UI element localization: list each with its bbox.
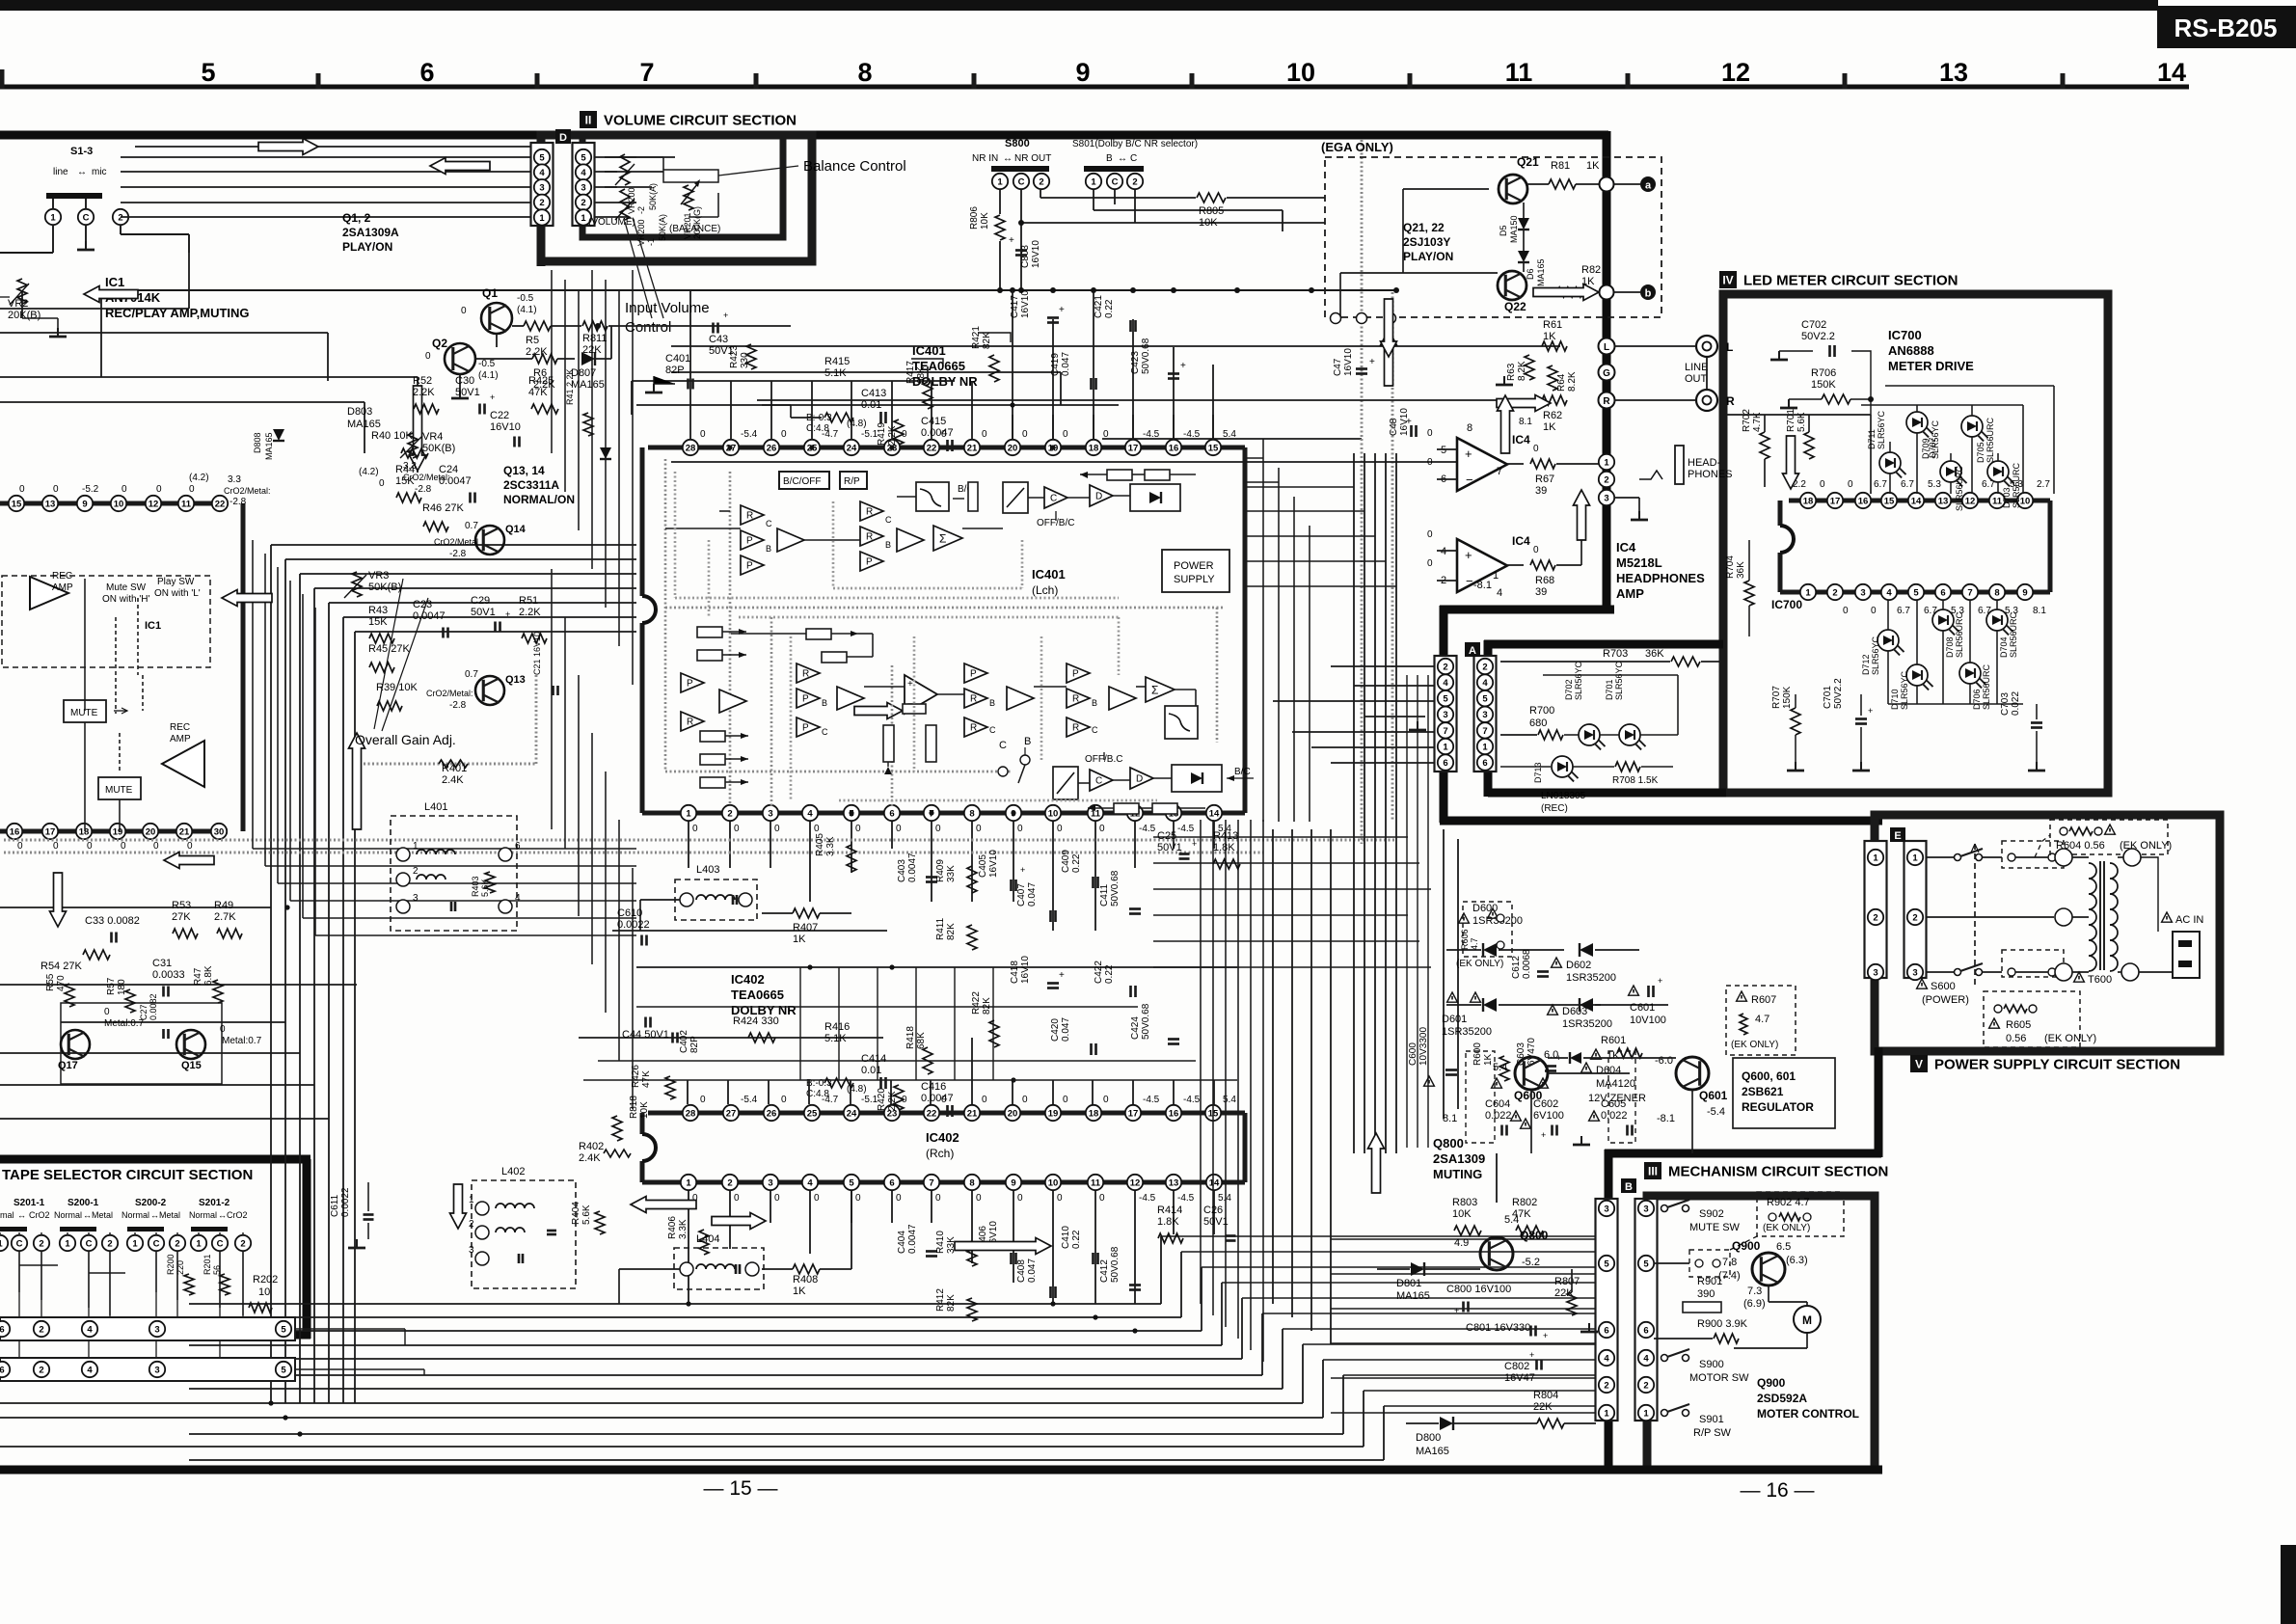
- svg-text:+: +: [1541, 1130, 1546, 1140]
- svg-text:1: 1: [413, 841, 419, 852]
- svg-text:0: 0: [976, 824, 982, 834]
- svg-text:Metal: Metal: [159, 1210, 180, 1220]
- svg-text:28: 28: [686, 1108, 696, 1119]
- svg-text:C800 16V100: C800 16V100: [1446, 1284, 1511, 1295]
- svg-text:4: 4: [1443, 678, 1448, 689]
- svg-text:MUTING: MUTING: [1433, 1167, 1482, 1181]
- svg-text:D705: D705: [1976, 442, 1985, 463]
- svg-text:C801 16V330: C801 16V330: [1466, 1322, 1530, 1334]
- svg-text:C24: C24: [439, 464, 458, 475]
- svg-text:30: 30: [214, 826, 225, 837]
- svg-text:RS-B205: RS-B205: [2174, 14, 2278, 42]
- svg-text:R607: R607: [1751, 994, 1776, 1006]
- svg-text:390: 390: [1697, 1288, 1715, 1300]
- svg-text:10: 10: [2020, 496, 2031, 506]
- svg-text:R53: R53: [172, 900, 191, 911]
- svg-text:D800: D800: [1416, 1432, 1441, 1444]
- svg-text:C44 50V1: C44 50V1: [622, 1029, 669, 1041]
- svg-text:Input Volume: Input Volume: [625, 300, 710, 316]
- svg-text:3.3K: 3.3K: [678, 1219, 689, 1239]
- svg-text:11: 11: [1091, 808, 1101, 819]
- svg-text:PHONES: PHONES: [1688, 469, 1732, 480]
- svg-text:3: 3: [154, 1365, 159, 1375]
- svg-text:mic: mic: [92, 167, 107, 177]
- svg-text:D603: D603: [1562, 1006, 1587, 1017]
- svg-text:3.3: 3.3: [228, 474, 241, 485]
- svg-text:13: 13: [45, 499, 56, 509]
- svg-text:-8.1: -8.1: [1657, 1113, 1675, 1124]
- svg-text:2.2K: 2.2K: [413, 387, 435, 398]
- svg-text:C: C: [153, 1238, 160, 1249]
- svg-text:12V ZENER: 12V ZENER: [1588, 1093, 1646, 1104]
- svg-text:2: 2: [1873, 912, 1877, 923]
- svg-text:16V10: 16V10: [1020, 290, 1031, 318]
- svg-text:MA4120: MA4120: [1596, 1078, 1635, 1090]
- svg-text:R422: R422: [971, 991, 982, 1015]
- svg-text:C420: C420: [1050, 1018, 1061, 1042]
- svg-text:6V470: 6V470: [1526, 1038, 1537, 1066]
- svg-text:6.7: 6.7: [1874, 479, 1887, 490]
- svg-text:16: 16: [10, 826, 20, 837]
- svg-text:MECHANISM CIRCUIT SECTION: MECHANISM CIRCUIT SECTION: [1668, 1164, 1888, 1180]
- svg-text:C: C: [822, 727, 828, 737]
- svg-text:16: 16: [1169, 1108, 1179, 1119]
- svg-text:C47: C47: [1333, 358, 1343, 376]
- svg-text:+: +: [1192, 839, 1197, 849]
- svg-text:V: V: [1915, 1058, 1923, 1071]
- svg-text:R902 4.7: R902 4.7: [1767, 1197, 1810, 1208]
- svg-text:-4.5: -4.5: [1177, 824, 1195, 834]
- svg-text:(Lch): (Lch): [1032, 583, 1058, 597]
- svg-text:24: 24: [847, 443, 857, 453]
- svg-text:0: 0: [774, 824, 780, 834]
- svg-text:S201-1: S201-1: [14, 1198, 45, 1208]
- svg-text:↔: ↔: [150, 1210, 159, 1220]
- svg-text:6: 6: [1482, 758, 1487, 769]
- svg-text:R62: R62: [1543, 410, 1562, 421]
- svg-text:16V10: 16V10: [1343, 348, 1354, 376]
- svg-text:AC IN: AC IN: [2175, 914, 2203, 926]
- svg-text:L401: L401: [424, 801, 447, 813]
- svg-text:0: 0: [700, 1095, 706, 1105]
- svg-text:8: 8: [969, 808, 974, 819]
- svg-text:SLR56URC: SLR56URC: [2012, 462, 2021, 508]
- svg-text:9: 9: [2022, 587, 2027, 598]
- svg-text:C: C: [1130, 153, 1137, 164]
- svg-text:E: E: [1894, 830, 1901, 842]
- svg-text:3: 3: [1873, 967, 1877, 978]
- svg-text:7: 7: [1482, 726, 1487, 737]
- svg-text:C412: C412: [1099, 1259, 1110, 1283]
- svg-text:B: B: [1106, 153, 1113, 164]
- svg-text:+: +: [1009, 235, 1014, 246]
- svg-text:68K: 68K: [916, 1032, 927, 1049]
- svg-text:R807: R807: [1554, 1276, 1580, 1287]
- svg-text:10K: 10K: [1452, 1208, 1472, 1220]
- svg-text:16V10: 16V10: [490, 421, 521, 433]
- svg-text:B: B: [766, 544, 771, 554]
- svg-text:3: 3: [154, 1324, 159, 1335]
- svg-text:R423: R423: [729, 345, 740, 368]
- svg-text:C610: C610: [617, 907, 642, 919]
- svg-text:16V10: 16V10: [988, 850, 999, 878]
- svg-text:R55: R55: [45, 973, 56, 991]
- svg-text:R82: R82: [1581, 264, 1601, 276]
- svg-text:3: 3: [768, 808, 772, 819]
- svg-text:24: 24: [847, 1108, 857, 1119]
- svg-text:TAPE SELECTOR CIRCUIT SECTION: TAPE SELECTOR CIRCUIT SECTION: [2, 1167, 253, 1183]
- svg-text:L: L: [1604, 342, 1609, 353]
- svg-text:5: 5: [539, 152, 545, 163]
- svg-text:2: 2: [413, 866, 419, 877]
- svg-text:R: R: [687, 717, 693, 728]
- svg-text:15K: 15K: [368, 616, 388, 628]
- svg-text:180: 180: [117, 979, 127, 995]
- svg-text:D707: D707: [1928, 437, 1937, 458]
- svg-text:NORMAL/ON: NORMAL/ON: [503, 493, 575, 506]
- svg-text:T600: T600: [2088, 974, 2112, 986]
- svg-text:C421: C421: [1094, 295, 1104, 318]
- svg-text:2: 2: [727, 808, 732, 819]
- svg-text:Q601: Q601: [1699, 1089, 1728, 1102]
- svg-text:R606: R606: [1460, 929, 1470, 950]
- svg-text:15K: 15K: [395, 475, 415, 487]
- svg-text:(EK ONLY): (EK ONLY): [1763, 1223, 1810, 1233]
- svg-text:IC402: IC402: [926, 1130, 959, 1145]
- svg-text:II: II: [585, 114, 592, 127]
- svg-text:0: 0: [935, 824, 941, 834]
- svg-text:15: 15: [1208, 443, 1219, 453]
- svg-text:Mute SW: Mute SW: [106, 582, 147, 593]
- svg-text:C: C: [885, 515, 892, 525]
- svg-text:D801: D801: [1396, 1278, 1421, 1289]
- svg-text:R46 27K: R46 27K: [422, 502, 464, 514]
- svg-text:1: 1: [1091, 176, 1096, 187]
- svg-text:R600: R600: [1472, 1042, 1483, 1066]
- svg-text:C416: C416: [921, 1081, 946, 1093]
- svg-text:15: 15: [1884, 496, 1895, 506]
- svg-text:0: 0: [1533, 444, 1539, 454]
- svg-text:MA165: MA165: [571, 379, 605, 391]
- svg-text:1.8K: 1.8K: [1157, 1216, 1179, 1228]
- svg-text:(4.2): (4.2): [189, 473, 209, 483]
- svg-text:+: +: [505, 609, 510, 619]
- svg-text:B: B: [989, 698, 995, 708]
- svg-text:OUT: OUT: [1685, 373, 1708, 385]
- svg-text:3: 3: [539, 183, 544, 194]
- svg-text:19: 19: [113, 826, 123, 837]
- svg-text:S800: S800: [1005, 138, 1030, 149]
- svg-text:R5: R5: [526, 335, 539, 346]
- svg-text:21: 21: [179, 826, 190, 837]
- svg-text:-0.5: -0.5: [517, 293, 534, 304]
- svg-text:D5: D5: [1499, 225, 1508, 236]
- svg-text:+: +: [723, 311, 728, 320]
- svg-text:1: 1: [581, 213, 586, 224]
- svg-text:0: 0: [1017, 824, 1023, 834]
- svg-text:C30: C30: [455, 375, 474, 387]
- svg-text:5.1K: 5.1K: [824, 367, 847, 379]
- svg-text:D712: D712: [1861, 654, 1871, 675]
- svg-text:2SA1309: 2SA1309: [1433, 1151, 1485, 1166]
- svg-text:4: 4: [87, 1324, 93, 1335]
- svg-text:R52: R52: [413, 375, 432, 387]
- svg-text:R/P: R/P: [844, 476, 860, 487]
- svg-text:8.1: 8.1: [1443, 1113, 1457, 1124]
- svg-text:0.0022: 0.0022: [617, 919, 650, 931]
- svg-text:50V1: 50V1: [1203, 1216, 1229, 1228]
- svg-text:C417: C417: [1010, 295, 1020, 318]
- svg-text:0.0047: 0.0047: [907, 1224, 918, 1254]
- svg-text:Σ: Σ: [1151, 683, 1158, 696]
- svg-text:470: 470: [56, 975, 67, 991]
- svg-text:0: 0: [1427, 428, 1433, 439]
- svg-text:2: 2: [39, 1365, 43, 1375]
- svg-text:4: 4: [1604, 1353, 1609, 1364]
- svg-text:2: 2: [581, 198, 585, 208]
- svg-text:1K: 1K: [793, 1286, 806, 1297]
- svg-text:21: 21: [967, 1108, 978, 1119]
- svg-text:MA165: MA165: [347, 419, 381, 430]
- svg-text:2: 2: [1443, 662, 1447, 672]
- svg-text:C612: C612: [1511, 956, 1522, 979]
- svg-text:B/C: B/C: [1234, 767, 1251, 777]
- svg-text:C: C: [83, 212, 90, 223]
- svg-text:6: 6: [0, 1365, 5, 1375]
- svg-text:15: 15: [12, 499, 22, 509]
- svg-text:M: M: [1802, 1313, 1812, 1327]
- svg-text:28: 28: [686, 443, 696, 453]
- svg-text:0: 0: [734, 824, 740, 834]
- svg-text:C604: C604: [1485, 1098, 1510, 1110]
- svg-text:C701: C701: [1823, 686, 1833, 709]
- svg-text:IC401: IC401: [1032, 567, 1066, 582]
- svg-text:14: 14: [2157, 58, 2186, 87]
- svg-text:VR2: VR2: [8, 298, 28, 310]
- svg-text:ON with 'H': ON with 'H': [102, 594, 149, 605]
- svg-text:Balance Control: Balance Control: [803, 158, 906, 175]
- svg-text:C600: C600: [1408, 1042, 1418, 1066]
- svg-text:R: R: [746, 511, 753, 522]
- svg-text:4: 4: [87, 1365, 93, 1375]
- svg-text:0.56: 0.56: [2006, 1033, 2026, 1044]
- svg-text:5: 5: [281, 1365, 286, 1375]
- svg-text:8: 8: [1467, 422, 1472, 434]
- svg-text:C31: C31: [152, 958, 172, 969]
- svg-text:MOTER CONTROL: MOTER CONTROL: [1757, 1407, 1859, 1421]
- svg-text:SLR56YC: SLR56YC: [1574, 661, 1583, 700]
- svg-text:5: 5: [581, 152, 586, 163]
- svg-text:1K: 1K: [793, 934, 806, 945]
- svg-text:5.1K: 5.1K: [824, 1033, 847, 1044]
- svg-text:47K: 47K: [528, 387, 548, 398]
- svg-text:B: B: [1024, 736, 1031, 747]
- svg-text:0: 0: [53, 484, 59, 495]
- svg-text:SLR56URC: SLR56URC: [1982, 663, 1991, 710]
- svg-text:5.4: 5.4: [1218, 1193, 1231, 1204]
- svg-text:+: +: [1020, 865, 1025, 875]
- svg-text:2SJ103Y: 2SJ103Y: [1403, 235, 1450, 249]
- svg-text:0: 0: [104, 1007, 110, 1017]
- svg-text:8: 8: [969, 1177, 974, 1188]
- svg-text:18: 18: [1803, 496, 1814, 506]
- svg-text:22K: 22K: [582, 344, 602, 356]
- svg-text:3: 3: [1604, 493, 1608, 503]
- svg-text:D604: D604: [1596, 1065, 1621, 1076]
- svg-text:6: 6: [0, 1324, 5, 1335]
- svg-text:D601: D601: [1442, 1014, 1467, 1025]
- svg-text:R: R: [970, 694, 977, 705]
- svg-text:R51: R51: [519, 595, 538, 607]
- svg-text:50V0.68: 50V0.68: [1141, 1003, 1151, 1040]
- svg-text:+: +: [1529, 1350, 1534, 1360]
- svg-text:0.047: 0.047: [1027, 882, 1038, 907]
- svg-text:L403: L403: [696, 864, 719, 876]
- svg-text:+: +: [1180, 361, 1186, 371]
- svg-text:(POWER): (POWER): [1922, 994, 1969, 1006]
- svg-text:1: 1: [469, 1195, 474, 1205]
- svg-text:(VOLUME): (VOLUME): [588, 217, 635, 228]
- svg-text:10V3300: 10V3300: [1418, 1027, 1429, 1066]
- svg-text:R412: R412: [935, 1288, 946, 1312]
- svg-text:+: +: [1454, 1306, 1459, 1315]
- svg-text:2: 2: [240, 1238, 245, 1249]
- svg-text:16V10: 16V10: [1031, 240, 1041, 268]
- svg-text:0: 0: [692, 824, 698, 834]
- svg-text:C702: C702: [1801, 319, 1826, 331]
- svg-text:Q15: Q15: [181, 1060, 202, 1071]
- svg-text:C26: C26: [1203, 1204, 1223, 1216]
- svg-text:3: 3: [1643, 1204, 1648, 1214]
- svg-text:0.01: 0.01: [861, 1065, 881, 1076]
- svg-text:8.2K: 8.2K: [1517, 361, 1527, 381]
- svg-text:D710: D710: [1890, 689, 1900, 710]
- svg-text:2.7: 2.7: [2037, 479, 2050, 490]
- svg-text:50K(A): 50K(A): [658, 214, 667, 241]
- svg-text:2: 2: [727, 1177, 732, 1188]
- svg-text:+: +: [907, 679, 913, 690]
- svg-text:(4.1): (4.1): [517, 305, 537, 315]
- svg-text:+: +: [1465, 447, 1472, 461]
- svg-text:0: 0: [1427, 457, 1433, 468]
- svg-text:C: C: [999, 740, 1007, 751]
- svg-text:0: 0: [19, 484, 25, 495]
- svg-text:−: −: [1466, 574, 1473, 588]
- svg-text:0: 0: [153, 841, 159, 852]
- svg-text:-4.5: -4.5: [1139, 824, 1156, 834]
- svg-text:— 15 —: — 15 —: [703, 1477, 777, 1500]
- svg-text:4.9: 4.9: [1454, 1237, 1469, 1249]
- svg-text:(4.1): (4.1): [478, 370, 499, 381]
- svg-text:25: 25: [807, 1108, 818, 1119]
- svg-text:1: 1: [132, 1238, 138, 1249]
- svg-text:P: P: [866, 557, 873, 568]
- svg-text:R415: R415: [824, 356, 850, 367]
- svg-text:(4.2): (4.2): [359, 467, 379, 477]
- svg-text:D706: D706: [1972, 689, 1982, 710]
- svg-text:2.7K: 2.7K: [214, 911, 236, 923]
- svg-text:III: III: [1648, 1165, 1658, 1178]
- svg-text:R41 2.2K: R41 2.2K: [565, 368, 575, 405]
- svg-text:R403: R403: [471, 876, 480, 897]
- svg-text:0.0082: 0.0082: [149, 993, 158, 1020]
- svg-text:18: 18: [1089, 1108, 1099, 1119]
- svg-text:-2: -2: [636, 206, 646, 214]
- svg-text:mal: mal: [0, 1210, 14, 1220]
- svg-text:R49: R49: [214, 900, 233, 911]
- svg-text:P: P: [802, 723, 809, 734]
- svg-text:82K: 82K: [946, 923, 957, 940]
- svg-text:0: 0: [1063, 429, 1068, 440]
- svg-text:D: D: [559, 132, 567, 144]
- svg-text:D704: D704: [1999, 636, 2009, 658]
- svg-text:S200-1: S200-1: [68, 1198, 99, 1208]
- svg-text:1K: 1K: [1543, 331, 1556, 342]
- svg-text:+: +: [1406, 417, 1412, 427]
- svg-text:9: 9: [1011, 1177, 1015, 1188]
- svg-text:C21 16V10: C21 16V10: [532, 632, 542, 675]
- svg-text:0: 0: [1057, 1193, 1063, 1204]
- svg-text:R: R: [866, 507, 873, 518]
- svg-text:21: 21: [967, 443, 978, 453]
- svg-text:2.4K: 2.4K: [579, 1152, 601, 1164]
- svg-text:SLR56URC: SLR56URC: [1955, 611, 1964, 658]
- svg-text:MA165: MA165: [264, 432, 274, 460]
- svg-text:0: 0: [1099, 824, 1105, 834]
- svg-text:0.0047: 0.0047: [921, 1093, 954, 1104]
- svg-text:0: 0: [121, 841, 126, 852]
- svg-text:line: line: [53, 167, 68, 177]
- svg-text:0.047: 0.047: [1061, 352, 1071, 376]
- svg-text:R: R: [802, 669, 809, 680]
- svg-text:19: 19: [1048, 1108, 1059, 1119]
- svg-text:20K(B): 20K(B): [8, 310, 41, 321]
- svg-text:0: 0: [1022, 1095, 1028, 1105]
- svg-text:D808: D808: [253, 432, 262, 453]
- svg-text:R54 27K: R54 27K: [41, 961, 82, 972]
- svg-text:C611: C611: [330, 1194, 340, 1217]
- svg-text:10K: 10K: [1199, 217, 1218, 229]
- svg-text:+: +: [1658, 976, 1662, 986]
- svg-text:2: 2: [1604, 1380, 1608, 1391]
- svg-text:R418: R418: [905, 1026, 916, 1049]
- svg-text:AN6888: AN6888: [1888, 343, 1934, 358]
- svg-text:0.047: 0.047: [1061, 1017, 1071, 1042]
- svg-text:(REC): (REC): [1541, 803, 1568, 814]
- svg-text:R802: R802: [1512, 1197, 1537, 1208]
- svg-text:LED METER CIRCUIT SECTION: LED METER CIRCUIT SECTION: [1743, 273, 1958, 289]
- svg-text:0.0068: 0.0068: [1522, 949, 1532, 979]
- svg-text:C601: C601: [1630, 1002, 1655, 1014]
- svg-text:6.7: 6.7: [1897, 606, 1910, 616]
- svg-text:1: 1: [1482, 742, 1488, 752]
- svg-text:IC1: IC1: [105, 275, 124, 289]
- svg-text:26: 26: [767, 1108, 777, 1119]
- svg-text:R417: R417: [905, 361, 916, 384]
- svg-text:0: 0: [122, 484, 127, 495]
- svg-text:0: 0: [1533, 545, 1539, 555]
- svg-text:22: 22: [927, 443, 937, 453]
- svg-text:R703: R703: [1603, 648, 1628, 660]
- svg-text:10K: 10K: [980, 212, 990, 230]
- svg-text:0: 0: [156, 484, 162, 495]
- svg-text:0: 0: [53, 841, 59, 852]
- svg-text:P: P: [746, 561, 753, 572]
- svg-text:(EK ONLY): (EK ONLY): [1731, 1040, 1778, 1050]
- svg-text:C:4.8: C:4.8: [806, 423, 829, 434]
- svg-text:R420: R420: [877, 1088, 887, 1111]
- svg-text:50K(B): 50K(B): [422, 443, 455, 454]
